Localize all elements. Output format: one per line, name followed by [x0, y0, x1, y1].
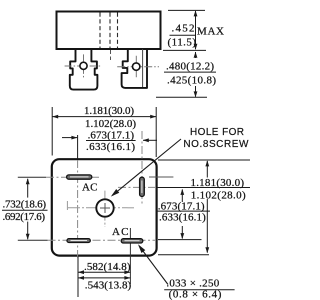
dimension line 1.181 right vertical — [205, 160, 209, 253]
dimension line .543 — [78, 276, 130, 280]
svg-text:.673(17.1): .673(17.1) — [88, 129, 135, 141]
front view: square body — [52, 159, 157, 255]
terminal left hole — [80, 62, 87, 69]
svg-text:AC: AC — [112, 226, 129, 238]
svg-text:.033 × .250: .033 × .250 — [166, 277, 219, 289]
fraction bar .673 top — [86, 140, 136, 142]
centre line vertical through AC slots left — [77, 160, 79, 258]
svg-text:.582(14.8): .582(14.8) — [84, 261, 131, 273]
svg-text:.633(16.1): .633(16.1) — [159, 212, 206, 224]
svg-text:.633(16.1): .633(16.1) — [86, 141, 135, 153]
centre line horizontal top slot right segment — [149, 176, 173, 178]
svg-text:.692(17.6): .692(17.6) — [3, 211, 46, 223]
fraction bar .732 — [2, 209, 48, 211]
svg-text:.480(12.2): .480(12.2) — [166, 60, 214, 72]
svg-text:.452: .452 — [172, 23, 195, 35]
svg-text:(0.8 × 6.4): (0.8 × 6.4) — [169, 289, 222, 300]
fraction bar .673 right — [156, 210, 210, 212]
svg-text:MAX: MAX — [197, 26, 224, 38]
terminal right hole — [133, 63, 140, 70]
extension line square top right side — [158, 159, 250, 161]
fraction bar .033 — [164, 289, 234, 291]
centre line vertical circle — [104, 191, 106, 227]
centre line horizontal right slot — [118, 186, 156, 188]
centre line horizontal top slot — [18, 176, 46, 178]
dimension arrow up .732 left — [26, 178, 30, 197]
extension line right slot centre right side — [157, 187, 250, 189]
leader to mounting hole — [111, 139, 181, 197]
extension line bottom slots right side — [158, 239, 202, 241]
svg-text:1.102(28.0): 1.102(28.0) — [85, 118, 136, 130]
ac slot bottom right — [121, 239, 143, 243]
centre line vertical right slot — [141, 131, 143, 204]
ac slot top left — [67, 175, 92, 179]
terminal left centre line horizontal — [65, 65, 101, 67]
terminal right bend line — [142, 49, 144, 87]
centre line horizontal bottom slots — [18, 239, 48, 241]
extension line terminal bottom — [156, 96, 207, 98]
extension line square left top — [51, 107, 53, 156]
svg-text:.732(18.6): .732(18.6) — [3, 198, 47, 210]
centre line horizontal circle — [68, 207, 134, 209]
extension line slot2 vertical — [129, 228, 131, 284]
mounting hole circle — [96, 199, 113, 216]
terminal left centre line vertical — [83, 54, 85, 78]
terminal tab left — [70, 49, 98, 90]
svg-text:.673(17.1): .673(17.1) — [158, 200, 205, 212]
plus slot right vertical — [140, 177, 145, 196]
terminal right centre line horizontal — [117, 66, 159, 68]
centre line stub below body — [110, 50, 112, 60]
dimension line .452 vertical — [194, 10, 198, 49]
leader to ac slot — [138, 244, 168, 284]
outside arrow left .673 — [62, 136, 77, 140]
hidden hole dashed line right — [117, 13, 119, 49]
fraction bar .452 — [170, 34, 197, 36]
top view: bridge body side outline — [57, 12, 161, 50]
svg-text:.543(13.8): .543(13.8) — [85, 279, 132, 291]
minus slot bottom left — [67, 239, 90, 243]
extension line square right top — [155, 107, 157, 157]
svg-text:1.181(30.0): 1.181(30.0) — [191, 177, 245, 189]
dimension line 1.181 top — [52, 115, 156, 119]
dimension arrow down .692 left — [26, 222, 30, 240]
dimension line .673 right vertical — [180, 189, 184, 239]
svg-text:NO.8SCREW: NO.8SCREW — [183, 139, 249, 150]
dimension line .480 vertical with outside arrows — [194, 52, 198, 98]
svg-text:1.181(30.0): 1.181(30.0) — [84, 105, 134, 117]
outside arrow right .673 — [143, 138, 157, 142]
svg-text:AC: AC — [82, 181, 98, 193]
extension line body bottom right — [163, 49, 206, 51]
extension line square bottom right side — [158, 254, 209, 256]
svg-text:(11.5): (11.5) — [168, 36, 197, 48]
extension line body top right — [168, 9, 205, 11]
extension line ac slot centre top — [77, 135, 79, 159]
terminal tab right — [122, 49, 147, 88]
fraction bar .480 — [164, 71, 216, 73]
svg-text:HOLE FOR: HOLE FOR — [190, 127, 244, 138]
hidden hole dashed line left — [99, 13, 101, 49]
dimension line .582 — [78, 270, 130, 274]
terminal right centre line vertical — [135, 56, 137, 78]
hidden hole dashed line centre — [109, 13, 111, 49]
centre line end tick — [66, 201, 68, 210]
extension line slot1 vertical bottom — [77, 257, 79, 298]
svg-text:.425(10.8): .425(10.8) — [167, 74, 216, 86]
